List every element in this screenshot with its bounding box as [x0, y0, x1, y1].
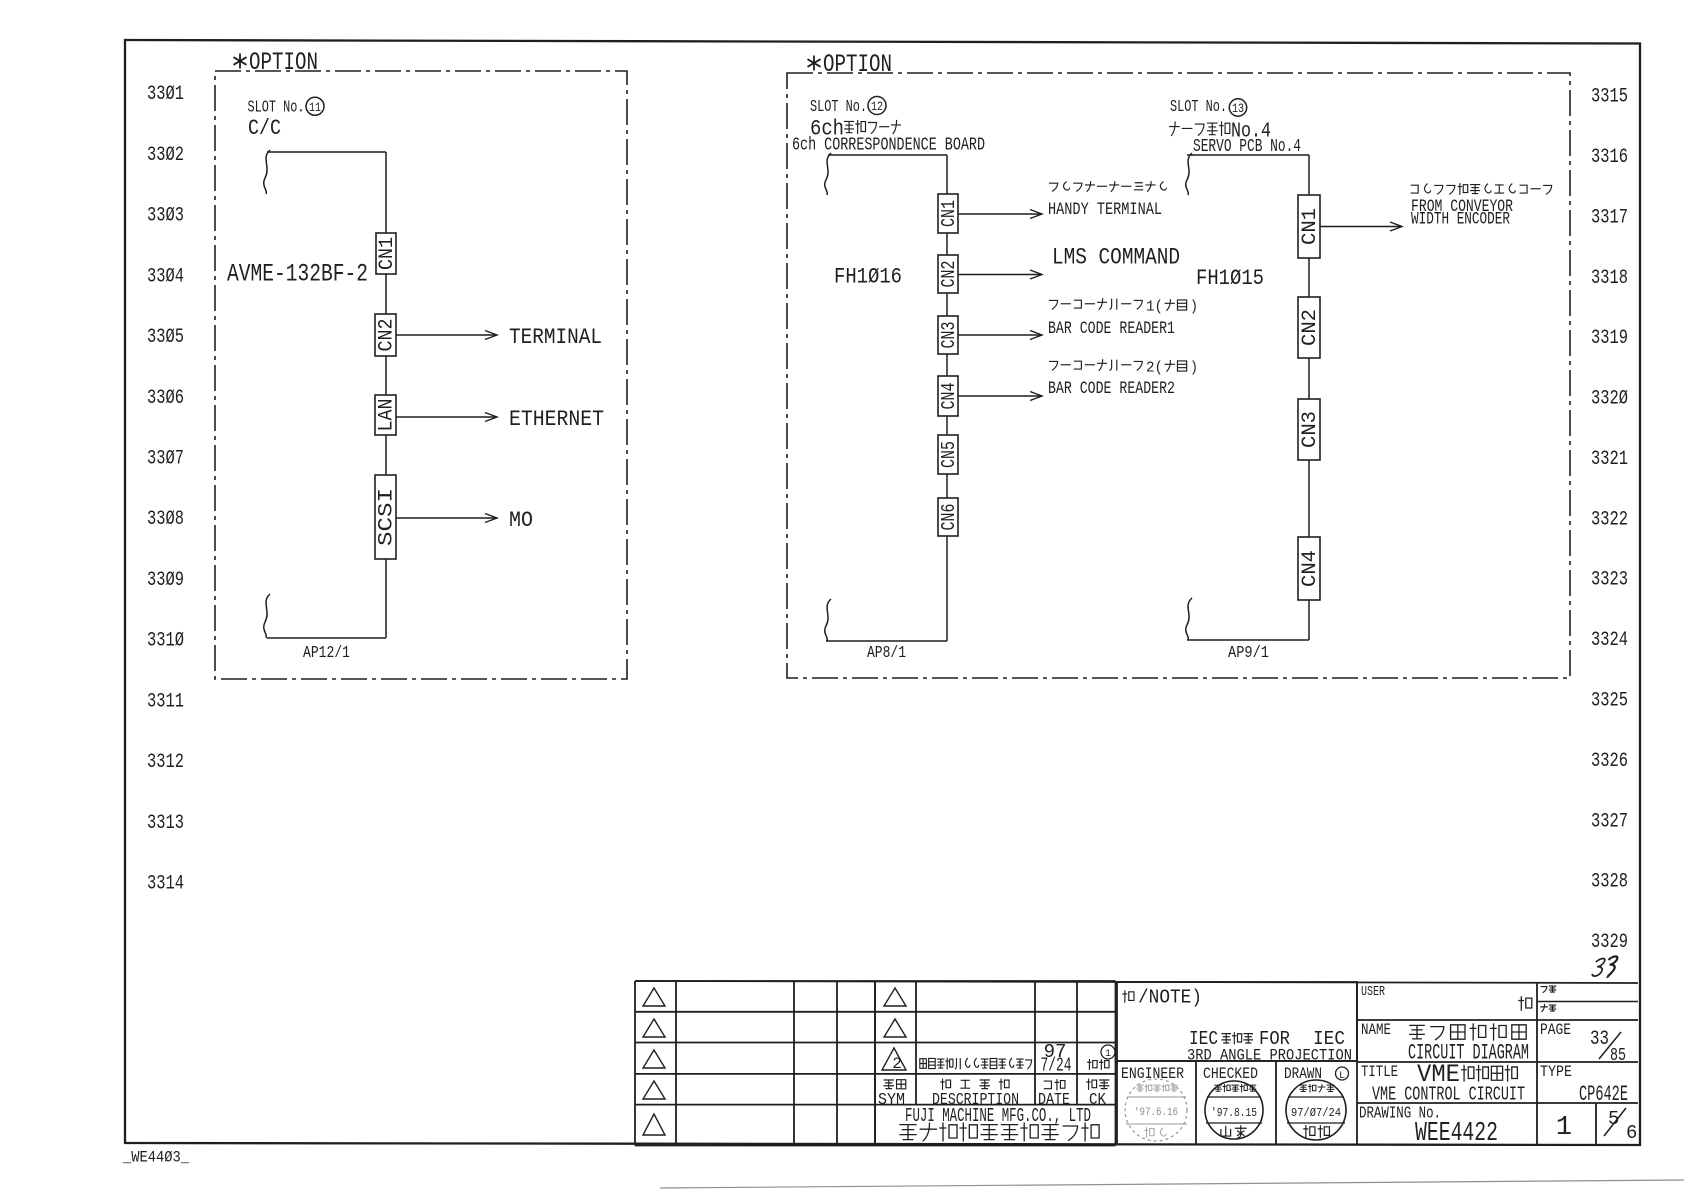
svg-text:BAR CODE READER2: BAR CODE READER2 [1048, 379, 1175, 399]
svg-text:33Ø8: 33Ø8 [147, 508, 184, 531]
svg-text:33: 33 [1590, 1028, 1609, 1051]
revision 2 CK esaka (kanji) [1088, 1060, 1109, 1070]
svg-text:L: L [1339, 1071, 1345, 1082]
svg-text:33Ø3: 33Ø3 [147, 205, 184, 228]
svg-text:3313: 3313 [147, 812, 184, 835]
svg-text:FUJI MACHINE MFG.CO., LTD: FUJI MACHINE MFG.CO., LTD [905, 1105, 1091, 1127]
svg-text:FH1Ø16: FH1Ø16 [834, 265, 902, 290]
signature row dividers [1117, 1061, 1357, 1146]
svg-text:33Ø7: 33Ø7 [147, 448, 184, 471]
svg-text:6: 6 [1626, 1122, 1637, 1144]
svg-text:3321: 3321 [1591, 448, 1628, 471]
svg-text:3316: 3316 [1591, 146, 1628, 169]
svg-text:6ch CORRESPONDENCE BOARD: 6ch CORRESPONDENCE BOARD [792, 136, 985, 156]
checked stamp (Yamamoto) [1205, 1081, 1263, 1139]
svg-text:ENGINEER: ENGINEER [1121, 1065, 1184, 1083]
company name kanji Fuji Kikai Seizo KK [900, 1123, 1099, 1141]
svg-text:33Ø2: 33Ø2 [147, 144, 184, 167]
svg-text:3323: 3323 [1591, 569, 1628, 592]
svg-text:7/24: 7/24 [1041, 1055, 1072, 1077]
svg-text:332Ø: 332Ø [1591, 388, 1628, 411]
svg-text:VME CONTROL CIRCUIT: VME CONTROL CIRCUIT [1372, 1084, 1525, 1106]
svg-text:3328: 3328 [1591, 871, 1628, 894]
label handy terminal (katakana) [1050, 182, 1167, 192]
svg-text:CN3: CN3 [1299, 411, 1322, 448]
svg-text:AP12/1: AP12/1 [303, 644, 350, 663]
svg-text:NAME: NAME [1361, 1021, 1391, 1039]
circled 1 mark [1101, 1045, 1115, 1059]
svg-text:11: 11 [309, 100, 321, 115]
connector LAN (AVME) [375, 395, 396, 435]
arrow CN2 to TERMINAL [396, 334, 497, 336]
arrow CN4 to BAR CODE READER2 [958, 395, 1042, 397]
label tono (kanji) [1519, 997, 1532, 1010]
svg-text:CN5: CN5 [938, 441, 960, 468]
wire break squiggle (top left of FH1015 bus) [1186, 153, 1192, 195]
svg-text:97/Ø7/24: 97/Ø7/24 [1291, 1106, 1341, 1120]
svg-text:CN1: CN1 [376, 237, 399, 270]
connector CN4 (FH1015) [1298, 537, 1320, 600]
svg-text:33Ø5: 33Ø5 [147, 326, 184, 349]
connector CN3 (FH1016) [938, 316, 958, 354]
svg-text:CN3: CN3 [938, 322, 960, 349]
drawn stamp (Esaka) [1286, 1080, 1346, 1140]
connector CN5 (FH1016) [938, 435, 958, 474]
svg-text:LAN: LAN [376, 399, 399, 432]
revision triangles rows 1-2 (middle table) [884, 988, 906, 1006]
connector SCSI (AVME) [375, 475, 396, 559]
svg-text:SERVO PCB No.4: SERVO PCB No.4 [1193, 137, 1301, 157]
header DATE cell [1044, 1080, 1065, 1090]
svg-text:): ) [1190, 360, 1198, 377]
svg-text:WEE4422: WEE4422 [1415, 1119, 1498, 1149]
board FH1015 bus wire [1187, 155, 1309, 640]
label *OPTION (left) [239, 54, 241, 69]
right margin wire-number labels 3315-3329 [1591, 86, 1628, 955]
header DESCRIPTION cell [941, 1079, 1009, 1089]
circled L (drawn) [1336, 1067, 1349, 1080]
svg-text:13: 13 [1232, 101, 1244, 116]
svg-text:SCSI: SCSI [376, 488, 399, 546]
arrow CN3 to BAR CODE READER1 [958, 334, 1042, 336]
revision table (left, empty) [635, 981, 875, 1146]
svg-text:3327: 3327 [1591, 810, 1628, 833]
label chu/NOTE) [1123, 991, 1134, 1002]
circled 13 [1229, 99, 1246, 116]
svg-text:OPTION: OPTION [823, 50, 892, 79]
svg-text:SYM: SYM [878, 1091, 905, 1110]
svg-text:33Ø1: 33Ø1 [147, 83, 184, 106]
left margin wire-number labels 3301-3314 [147, 83, 184, 895]
board AVME-132BF-2 bus wire [267, 152, 386, 638]
engineer stamp (faded) [1125, 1079, 1187, 1141]
svg-text:CN2: CN2 [938, 261, 960, 288]
svg-text:SLOT No.: SLOT No. [810, 97, 867, 116]
arrow LAN to ETHERNET [396, 416, 497, 418]
revision triangles (left table) [643, 988, 665, 1135]
svg-text:SLOT No.: SLOT No. [248, 98, 305, 117]
wire break squiggle (bottom left of AVME bus) [264, 594, 270, 638]
svg-text:TITLE: TITLE [1361, 1063, 1398, 1081]
option enclosure 1 (dash-dot) [215, 71, 627, 679]
label seiban (kanji) [1541, 1004, 1556, 1011]
svg-text:'97.6.16: '97.6.16 [1134, 1107, 1178, 1119]
label bar code reader 1 (katakana) [1050, 299, 1143, 310]
svg-text:3325: 3325 [1591, 690, 1628, 713]
svg-text:33Ø9: 33Ø9 [147, 569, 184, 592]
svg-text:TERMINAL: TERMINAL [509, 325, 602, 350]
svg-text:AP9/1: AP9/1 [1228, 644, 1269, 663]
arrow CN1 to HANDY TERMINAL [958, 213, 1042, 215]
svg-text:AVME-132BF-2: AVME-132BF-2 [227, 260, 368, 289]
connector CN1 (FH1015) [1298, 195, 1320, 258]
header CK cell [1087, 1079, 1109, 1089]
svg-text:HANDY TERMINAL: HANDY TERMINAL [1048, 200, 1162, 220]
circled 11 [306, 97, 324, 115]
svg-text:MO: MO [509, 508, 533, 533]
connector CN4 (FH1016) [938, 376, 958, 416]
svg-text:AP8/1: AP8/1 [867, 644, 906, 663]
label servo kiban No.4 (kanji) [1170, 122, 1230, 136]
svg-text:85: 85 [1610, 1046, 1626, 1066]
svg-text:OPTION: OPTION [249, 48, 318, 77]
svg-text:CN1: CN1 [938, 200, 960, 227]
name denki kairo senzu (kanji) [1410, 1024, 1526, 1040]
option enclosure 2 (dash-dot) [787, 73, 1570, 678]
svg-text:CN4: CN4 [1299, 550, 1322, 587]
svg-text:ETHERNET: ETHERNET [509, 407, 604, 432]
connector CN2 (FH1016) [938, 255, 958, 293]
svg-text:/NOTE): /NOTE) [1138, 987, 1202, 1009]
handwritten page mark 33 [1592, 956, 1618, 978]
svg-text:CN2: CN2 [1299, 309, 1322, 346]
label bar code reader 2 (katakana) [1050, 360, 1143, 371]
svg-text:CHECKED: CHECKED [1203, 1065, 1258, 1083]
svg-text:FH1Ø15: FH1Ø15 [1196, 266, 1264, 291]
svg-text:12: 12 [871, 99, 883, 114]
arrow SCSI to MO [396, 517, 497, 519]
label conveyor width encoder (katakana) [1411, 184, 1551, 195]
svg-text:3311: 3311 [147, 690, 184, 713]
svg-text:BAR CODE READER1: BAR CODE READER1 [1048, 319, 1175, 339]
revision 2 triangle [882, 1048, 906, 1070]
svg-text:3317: 3317 [1591, 206, 1628, 229]
svg-text:3312: 3312 [147, 751, 184, 774]
svg-text:3315: 3315 [1591, 86, 1628, 109]
svg-text:CP642E: CP642E [1579, 1082, 1628, 1107]
wire break squiggle (bottom left of FH1015 bus) [1186, 598, 1192, 640]
svg-text:3319: 3319 [1591, 327, 1628, 350]
note box [1117, 982, 1357, 1061]
svg-text:WIDTH ENCODER: WIDTH ENCODER [1411, 210, 1510, 230]
svg-text:3326: 3326 [1591, 750, 1628, 773]
svg-text:1: 1 [1105, 1049, 1111, 1060]
title block right section grid [635, 981, 1638, 1146]
svg-text:CN1: CN1 [1299, 208, 1322, 245]
svg-text:3314: 3314 [147, 873, 184, 896]
connector CN1 (FH1016) [938, 194, 958, 233]
wire break squiggle (bottom left of FH1016 bus) [825, 599, 831, 641]
svg-text:CN6: CN6 [938, 504, 960, 531]
label *OPTION (right) [813, 56, 815, 71]
arrow CN1 to WIDTH ENCODER [1320, 226, 1402, 228]
svg-text:CN4: CN4 [938, 383, 960, 410]
svg-text:1: 1 [1556, 1113, 1572, 1143]
svg-text:C/C: C/C [248, 116, 281, 141]
svg-text:): ) [1190, 299, 1198, 316]
revision 2 description (kanji) [920, 1058, 1032, 1069]
circled 12 [868, 97, 886, 115]
svg-text:3322: 3322 [1591, 508, 1628, 531]
label bunban (kanji) [1541, 986, 1556, 992]
connector CN3 (FH1015) [1298, 399, 1320, 460]
svg-text:1(: 1( [1146, 299, 1163, 316]
wire break squiggle (top left of AVME bus) [264, 150, 270, 194]
svg-text:SLOT No.: SLOT No. [1170, 97, 1227, 116]
svg-text:33Ø4: 33Ø4 [147, 265, 184, 288]
svg-text:331Ø: 331Ø [147, 630, 184, 653]
connector CN2 (AVME) [375, 314, 396, 356]
svg-text:PAGE: PAGE [1540, 1021, 1571, 1039]
svg-text:LMS COMMAND: LMS COMMAND [1052, 245, 1180, 271]
svg-text:2: 2 [892, 1055, 902, 1073]
svg-text:2(: 2( [1146, 360, 1163, 377]
svg-text:TYPE: TYPE [1540, 1063, 1572, 1081]
svg-text:3324: 3324 [1591, 629, 1628, 652]
svg-text:'97.8.15: '97.8.15 [1211, 1106, 1257, 1120]
board FH1016 bus wire [826, 155, 947, 641]
faint scanner line bottom [660, 1180, 1684, 1188]
connector CN2 (FH1015) [1298, 297, 1320, 358]
arrow CN2 to LMS COMMAND [958, 274, 1042, 276]
svg-text:3318: 3318 [1591, 267, 1628, 290]
revision table (middle) [875, 981, 1116, 1146]
connector CN6 (FH1016) [938, 498, 958, 536]
connector CN1 (AVME) [376, 233, 396, 274]
svg-text:USER: USER [1361, 984, 1385, 1000]
svg-text:CK: CK [1089, 1091, 1107, 1110]
svg-text:33Ø6: 33Ø6 [147, 387, 184, 410]
svg-text:3329: 3329 [1591, 931, 1628, 954]
wire break squiggle (top left of FH1016 bus) [825, 153, 831, 195]
svg-text:_WE44Ø3_: _WE44Ø3_ [122, 1149, 189, 1167]
svg-text:CN2: CN2 [376, 319, 399, 352]
header SYM cell [884, 1080, 906, 1089]
